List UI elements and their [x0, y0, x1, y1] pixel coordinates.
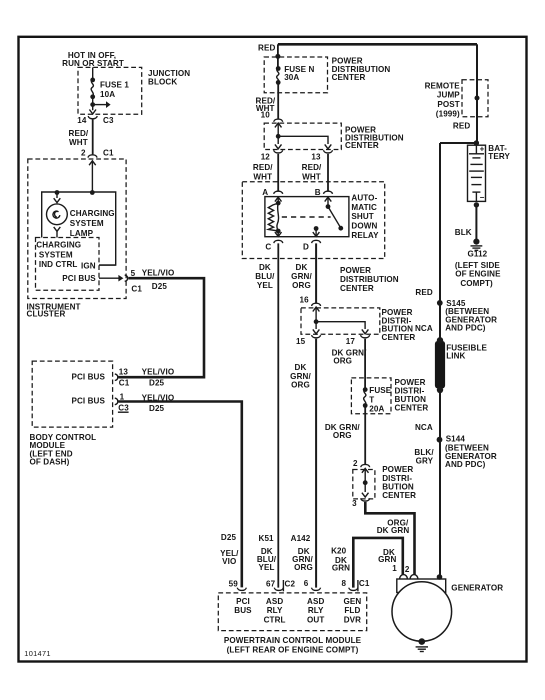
svg-text:OUT: OUT	[307, 615, 324, 624]
svg-text:ORG: ORG	[333, 357, 352, 366]
svg-text:SYSTEM: SYSTEM	[70, 219, 104, 228]
svg-text:GRN/: GRN/	[291, 272, 312, 281]
svg-text:S144: S144	[446, 435, 466, 444]
svg-text:REMOTE: REMOTE	[425, 81, 461, 90]
svg-text:POWER: POWER	[340, 266, 371, 275]
svg-text:CENTER: CENTER	[382, 333, 416, 342]
svg-text:RELAY: RELAY	[351, 231, 379, 240]
svg-text:GEN: GEN	[343, 597, 361, 606]
svg-text:−: −	[480, 193, 485, 202]
svg-text:WHT: WHT	[253, 173, 272, 182]
svg-text:2: 2	[405, 565, 410, 574]
svg-text:CENTER: CENTER	[395, 403, 429, 412]
svg-text:C: C	[265, 243, 271, 252]
svg-text:20A: 20A	[369, 405, 384, 414]
svg-text:14: 14	[77, 116, 87, 125]
svg-text:C1: C1	[119, 378, 130, 387]
svg-text:+: +	[480, 144, 485, 153]
svg-text:CENTER: CENTER	[382, 491, 416, 500]
svg-text:15: 15	[296, 337, 306, 346]
svg-text:D25: D25	[149, 378, 165, 387]
svg-text:(1999): (1999)	[436, 109, 460, 118]
svg-text:C1: C1	[103, 148, 114, 157]
svg-text:DK: DK	[295, 363, 307, 372]
svg-text:16: 16	[299, 296, 309, 305]
svg-text:D25: D25	[152, 282, 168, 291]
svg-text:AND PDC): AND PDC)	[445, 460, 486, 469]
svg-text:5: 5	[131, 269, 136, 278]
svg-text:RED/: RED/	[302, 163, 322, 172]
svg-text:RED/: RED/	[253, 163, 273, 172]
svg-text:WHT: WHT	[69, 138, 88, 147]
svg-text:T: T	[369, 395, 374, 404]
svg-text:LAMP: LAMP	[70, 229, 94, 238]
svg-text:RED: RED	[258, 44, 275, 53]
svg-text:FUSE: FUSE	[369, 386, 391, 395]
svg-text:LINK: LINK	[446, 352, 465, 361]
svg-text:JUMP: JUMP	[437, 91, 460, 100]
svg-text:FUSE 1: FUSE 1	[100, 81, 129, 90]
svg-text:1: 1	[392, 564, 397, 573]
svg-text:C3: C3	[103, 116, 114, 125]
svg-text:2: 2	[81, 148, 86, 157]
svg-text:GENERATOR: GENERATOR	[451, 583, 503, 592]
svg-text:ASD: ASD	[307, 597, 324, 606]
svg-text:IGN: IGN	[81, 262, 96, 271]
svg-text:RUN OR START: RUN OR START	[62, 59, 124, 68]
svg-text:YEL/VIO: YEL/VIO	[142, 269, 175, 278]
svg-text:GRN/: GRN/	[290, 372, 311, 381]
svg-text:3: 3	[352, 499, 357, 508]
svg-text:2: 2	[353, 459, 358, 468]
svg-text:CENTER: CENTER	[332, 73, 366, 82]
svg-text:POWERTRAIN CONTROL MODULE: POWERTRAIN CONTROL MODULE	[224, 636, 362, 645]
svg-text:RLY: RLY	[267, 606, 283, 615]
svg-text:YEL: YEL	[257, 281, 273, 290]
svg-text:D: D	[303, 243, 309, 252]
svg-text:DVR: DVR	[344, 615, 361, 624]
svg-text:AND PDC): AND PDC)	[445, 324, 486, 333]
svg-text:D25: D25	[221, 533, 237, 542]
svg-text:RED: RED	[453, 121, 470, 130]
svg-text:CENTER: CENTER	[345, 141, 379, 150]
svg-text:CHARGING: CHARGING	[36, 241, 81, 250]
svg-text:BUS: BUS	[234, 606, 252, 615]
svg-text:MATIC: MATIC	[351, 203, 377, 212]
svg-text:13: 13	[119, 368, 129, 377]
svg-text:13: 13	[311, 153, 321, 162]
svg-text:YEL/VIO: YEL/VIO	[142, 368, 175, 377]
svg-text:AUTO-: AUTO-	[351, 193, 377, 202]
svg-text:A142: A142	[291, 534, 311, 543]
svg-text:PCI BUS: PCI BUS	[71, 396, 105, 405]
svg-text:DISTRIBUTION: DISTRIBUTION	[340, 275, 399, 284]
svg-text:6: 6	[304, 579, 309, 588]
svg-text:A: A	[262, 188, 268, 197]
svg-text:ORG: ORG	[292, 281, 311, 290]
svg-text:BLU/: BLU/	[255, 272, 275, 281]
svg-text:D25: D25	[149, 404, 165, 413]
svg-text:NCA: NCA	[415, 423, 433, 432]
svg-text:59: 59	[229, 579, 239, 588]
svg-text:C1: C1	[359, 579, 370, 588]
svg-text:101471: 101471	[24, 649, 50, 658]
svg-text:OF ENGINE: OF ENGINE	[455, 270, 501, 279]
svg-text:G112: G112	[468, 250, 488, 259]
svg-text:RLY: RLY	[308, 606, 324, 615]
svg-text:10: 10	[261, 111, 271, 120]
svg-text:C1: C1	[131, 285, 142, 294]
svg-text:GRN: GRN	[378, 555, 396, 564]
svg-text:1: 1	[120, 393, 125, 402]
svg-text:PCI: PCI	[236, 597, 250, 606]
svg-text:B: B	[315, 188, 321, 197]
svg-text:C2: C2	[285, 579, 296, 588]
svg-text:ORG: ORG	[291, 381, 310, 390]
svg-text:C3: C3	[118, 404, 129, 413]
svg-text:SYSTEM: SYSTEM	[39, 250, 73, 259]
svg-text:GRY: GRY	[416, 456, 434, 465]
svg-text:12: 12	[261, 153, 271, 162]
svg-text:DOWN: DOWN	[351, 222, 377, 231]
svg-text:YEL: YEL	[258, 563, 274, 572]
svg-text:VIO: VIO	[222, 557, 236, 566]
svg-text:CHARGING: CHARGING	[70, 209, 115, 218]
svg-text:30A: 30A	[284, 73, 299, 82]
svg-text:K20: K20	[331, 546, 347, 555]
svg-text:CTRL: CTRL	[264, 615, 286, 624]
svg-text:ORG: ORG	[294, 563, 313, 572]
svg-text:DK: DK	[296, 263, 308, 272]
svg-text:TERY: TERY	[488, 152, 510, 161]
svg-text:BLK: BLK	[455, 228, 472, 237]
svg-text:POWER: POWER	[382, 465, 413, 474]
svg-text:BUTION: BUTION	[382, 483, 414, 492]
svg-text:BLOCK: BLOCK	[148, 78, 177, 87]
svg-text:(LEFT REAR OF ENGINE COMPT): (LEFT REAR OF ENGINE COMPT)	[227, 646, 359, 655]
svg-text:DK GRN: DK GRN	[377, 526, 410, 535]
svg-text:ORG: ORG	[333, 431, 352, 440]
svg-text:8: 8	[341, 579, 346, 588]
svg-text:POST: POST	[437, 100, 459, 109]
svg-text:PCI BUS: PCI BUS	[71, 372, 105, 381]
svg-text:RED: RED	[415, 288, 432, 297]
svg-text:67: 67	[266, 579, 276, 588]
svg-text:CENTER: CENTER	[340, 284, 374, 293]
svg-text:NCA: NCA	[415, 324, 433, 333]
svg-text:DK: DK	[259, 263, 271, 272]
svg-text:SHUT: SHUT	[351, 212, 373, 221]
svg-text:COMPT): COMPT)	[460, 279, 493, 288]
svg-text:10A: 10A	[100, 90, 115, 99]
svg-text:OF DASH): OF DASH)	[30, 458, 70, 467]
svg-text:FLD: FLD	[344, 606, 360, 615]
svg-text:ASD: ASD	[266, 597, 283, 606]
svg-text:K51: K51	[259, 534, 275, 543]
svg-text:17: 17	[346, 337, 356, 346]
svg-text:GRN: GRN	[332, 564, 350, 573]
svg-text:WHT: WHT	[302, 173, 321, 182]
svg-text:DISTRI-: DISTRI-	[382, 474, 412, 483]
svg-text:IND CTRL: IND CTRL	[39, 260, 78, 269]
svg-text:CLUSTER: CLUSTER	[27, 310, 66, 319]
svg-text:PCI BUS: PCI BUS	[62, 274, 96, 283]
